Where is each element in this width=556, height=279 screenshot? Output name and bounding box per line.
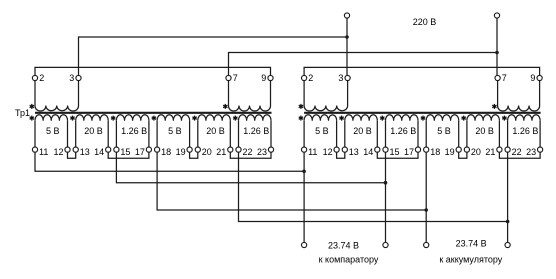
svg-text:23.74 В: 23.74 В xyxy=(456,239,487,249)
svg-text:14: 14 xyxy=(94,147,104,157)
polarity mark winding 2-3 (left) xyxy=(31,104,33,109)
junction pin 22 bus xyxy=(506,220,510,224)
pin 12 (right) xyxy=(334,147,339,152)
polarity mark winding 18-19 (left) xyxy=(153,116,155,121)
svg-text:14: 14 xyxy=(363,147,373,157)
pin 22 (right) xyxy=(505,147,510,152)
polarity mark winding 22-23 (right) xyxy=(503,116,505,121)
wire pin 11 right to output 1 xyxy=(303,152,305,242)
secondary winding 15-17 (left) xyxy=(116,115,148,121)
svg-text:1.26 В: 1.26 В xyxy=(390,126,416,136)
svg-text:Тр1: Тр1 xyxy=(15,108,30,118)
wire link pins 14-17 (right) xyxy=(377,152,418,158)
polarity mark winding 20-21 (left) xyxy=(194,116,196,121)
secondary winding 22-23 (right) xyxy=(508,115,540,121)
junction line2 / wire to left pin 7 xyxy=(495,51,499,55)
svg-text:23: 23 xyxy=(257,147,267,157)
svg-text:19: 19 xyxy=(176,147,186,157)
primary winding 7-9 (left) xyxy=(228,81,230,106)
pin 9 (right) xyxy=(537,75,542,80)
pin 2 (left) xyxy=(32,75,37,80)
polarity mark winding 2-3 (right) xyxy=(300,104,302,109)
svg-text:12: 12 xyxy=(323,147,333,157)
wire link pins 19-20 (right) xyxy=(459,152,467,158)
secondary winding 18-19 (right) xyxy=(426,115,459,121)
svg-text:19: 19 xyxy=(445,147,455,157)
wire pin 22 right to output 4 xyxy=(507,152,509,242)
polarity mark winding 15-17 (right) xyxy=(381,116,383,121)
svg-text:11: 11 xyxy=(39,147,48,157)
pin 14 (right) xyxy=(375,147,380,152)
wire pin 15 left to pin 15 right xyxy=(116,152,385,183)
svg-text:12: 12 xyxy=(53,147,63,157)
svg-text:20: 20 xyxy=(471,147,481,157)
svg-text:5 В: 5 В xyxy=(168,126,182,136)
output terminal 3 xyxy=(424,242,429,247)
wire line2 to left block pin 7 xyxy=(229,53,498,76)
svg-text:15: 15 xyxy=(120,147,130,157)
secondary winding 15-17 (right) xyxy=(386,115,419,121)
pin 21 (left) xyxy=(228,147,233,152)
pin 3 (left) xyxy=(76,75,81,80)
polarity mark winding 7-9 (right) xyxy=(493,104,495,109)
svg-text:1.26 В: 1.26 В xyxy=(121,126,147,136)
transformer core (right) xyxy=(304,112,540,114)
svg-text:2: 2 xyxy=(39,73,44,83)
secondary winding 13-14 (left) xyxy=(76,115,109,121)
pin 9 (left) xyxy=(268,75,273,80)
pin 7 (left) xyxy=(226,75,231,80)
pin 21 (right) xyxy=(497,147,502,152)
secondary winding 22-23 (left) xyxy=(239,115,272,121)
pin 20 (left) xyxy=(195,147,200,152)
output terminal 2 xyxy=(383,242,388,247)
secondary winding 20-21 (left) xyxy=(198,115,231,121)
terminal 220V line 2 xyxy=(494,13,499,18)
wire link pins 19-20 (left) xyxy=(190,152,198,158)
svg-text:22: 22 xyxy=(512,147,522,157)
pin 23 (left) xyxy=(268,147,273,152)
polarity mark winding 13-14 (right) xyxy=(341,116,343,121)
svg-text:17: 17 xyxy=(404,147,414,157)
svg-text:7: 7 xyxy=(502,73,507,83)
svg-text:к аккумулятору: к аккумулятору xyxy=(439,254,502,264)
svg-text:18: 18 xyxy=(161,147,171,157)
svg-text:1.26 В: 1.26 В xyxy=(243,126,269,136)
svg-text:3: 3 xyxy=(338,73,343,83)
pin 19 (right) xyxy=(456,147,461,152)
primary winding 2-3 (left) xyxy=(34,81,36,106)
polarity mark winding 13-14 (left) xyxy=(72,116,74,121)
svg-text:13: 13 xyxy=(349,147,359,157)
svg-text:2: 2 xyxy=(308,73,313,83)
svg-text:7: 7 xyxy=(233,73,238,83)
svg-text:18: 18 xyxy=(430,147,440,157)
pin 14 (left) xyxy=(106,147,111,152)
wire pin 18 right to output 3 xyxy=(425,152,427,242)
junction pin 18 bus xyxy=(424,208,428,212)
junction line1 / wire to left pin 3 xyxy=(345,35,349,39)
pin 7 (right) xyxy=(495,75,500,80)
pin 15 (left) xyxy=(114,147,119,152)
wire pin 15 right to output 2 xyxy=(385,152,387,242)
svg-text:20 В: 20 В xyxy=(353,126,372,136)
transformer core (left) xyxy=(35,112,272,114)
terminal 220V line 1 xyxy=(344,13,349,18)
svg-text:к компаратору: к компаратору xyxy=(319,254,379,264)
wire pin 11 left to pin 11 right xyxy=(35,152,304,171)
polarity mark winding 11-12 (right) xyxy=(300,116,302,121)
svg-text:5 В: 5 В xyxy=(437,126,451,136)
wire link pins 21-23 (left) xyxy=(230,152,271,158)
pin 17 (left) xyxy=(146,147,151,152)
pin 20 (right) xyxy=(464,147,469,152)
pin 11 (left) xyxy=(32,147,37,152)
polarity mark winding 22-23 (left) xyxy=(234,116,236,121)
pin 19 (left) xyxy=(187,147,192,152)
wire pin 18 left to pin 18 right xyxy=(157,152,426,210)
pin 11 (right) xyxy=(302,147,307,152)
wire line1 vertical to pin 3 of Tr right xyxy=(346,18,348,75)
secondary winding 13-14 (right) xyxy=(345,115,378,121)
svg-text:9: 9 xyxy=(261,73,266,83)
wire link pins 12-13 (right) xyxy=(337,152,345,158)
wire line2 vertical to pin 7 of Tr right xyxy=(496,18,498,75)
pin 2 (right) xyxy=(302,75,307,80)
svg-text:11: 11 xyxy=(308,147,317,157)
pin 13 (right) xyxy=(342,147,347,152)
svg-text:22: 22 xyxy=(243,147,253,157)
pin 15 (right) xyxy=(383,147,388,152)
junction pin 15 bus xyxy=(384,181,388,185)
polarity mark winding 7-9 (left) xyxy=(224,104,226,109)
secondary winding 18-19 (left) xyxy=(157,115,190,121)
secondary winding 11-12 (right) xyxy=(304,115,337,121)
junction pin 11 bus xyxy=(302,170,306,174)
svg-text:5 В: 5 В xyxy=(315,126,329,136)
svg-text:20 В: 20 В xyxy=(84,126,103,136)
polarity mark winding 11-12 (left) xyxy=(31,116,33,121)
output terminal 4 xyxy=(505,242,510,247)
wire pin2-pin9 series link (right) xyxy=(304,67,539,75)
svg-text:15: 15 xyxy=(390,147,400,157)
svg-text:23: 23 xyxy=(526,147,536,157)
pin 12 (left) xyxy=(65,147,70,152)
svg-text:5 В: 5 В xyxy=(46,126,60,136)
svg-text:21: 21 xyxy=(216,147,226,157)
polarity mark winding 15-17 (left) xyxy=(112,116,114,121)
wire link pins 21-23 (right) xyxy=(499,152,540,158)
pin 22 (left) xyxy=(236,147,241,152)
pin 18 (right) xyxy=(424,147,429,152)
primary winding 2-3 (right) xyxy=(303,81,305,106)
svg-text:20 В: 20 В xyxy=(475,126,494,136)
wire pin2-pin9 series link (left) xyxy=(35,67,271,75)
primary winding 7-9 (right) xyxy=(497,81,499,106)
svg-text:23.74 В: 23.74 В xyxy=(328,241,359,251)
polarity mark winding 18-19 (right) xyxy=(422,116,424,121)
svg-text:13: 13 xyxy=(80,147,90,157)
svg-text:1.26 В: 1.26 В xyxy=(512,126,538,136)
wire link pins 14-17 (left) xyxy=(108,152,149,158)
svg-text:21: 21 xyxy=(485,147,495,157)
wire link pins 12-13 (left) xyxy=(68,152,76,158)
secondary winding 20-21 (right) xyxy=(467,115,500,121)
svg-text:3: 3 xyxy=(69,73,74,83)
wire pin 22 left to pin 22 right xyxy=(239,152,508,221)
svg-text:17: 17 xyxy=(135,147,145,157)
polarity mark winding 20-21 (right) xyxy=(463,116,465,121)
pin 13 (left) xyxy=(73,147,78,152)
output terminal 1 xyxy=(302,242,307,247)
pin 18 (left) xyxy=(155,147,160,152)
pin 17 (right) xyxy=(415,147,420,152)
svg-text:20 В: 20 В xyxy=(206,126,225,136)
pin 3 (right) xyxy=(345,75,350,80)
svg-text:20: 20 xyxy=(202,147,212,157)
pin 23 (right) xyxy=(538,147,543,152)
svg-text:9: 9 xyxy=(530,73,535,83)
wire line1 to left block pin 3 xyxy=(79,37,348,75)
svg-text:220 В: 220 В xyxy=(413,17,437,27)
secondary winding 11-12 (left) xyxy=(35,115,68,121)
